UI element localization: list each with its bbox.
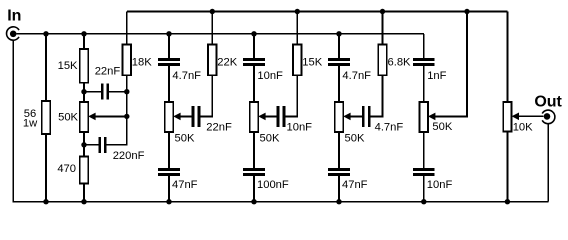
svg-text:15K: 15K	[302, 56, 322, 68]
output connector J2 "Out"	[534, 93, 562, 123]
node ground / band1	[81, 199, 86, 204]
node ground / band4	[336, 199, 341, 204]
wire	[253, 132, 255, 168]
svg-text:50K: 50K	[175, 133, 195, 145]
node ground / 10K pot	[505, 199, 510, 204]
capacitor 10nF band5 shunt	[413, 170, 452, 192]
wire band3 wiper to 15K	[285, 75, 297, 116]
wire band5 wiper to output bus	[435, 12, 467, 117]
svg-text:4.7nF: 4.7nF	[172, 70, 201, 82]
svg-text:47nF: 47nF	[342, 179, 368, 191]
capacitor 22nF band2 wiper	[193, 106, 232, 134]
capacitor 47nF band2 shunt	[158, 170, 197, 192]
node input bus / band4	[336, 31, 341, 36]
wire	[382, 12, 384, 45]
svg-text:1nF: 1nF	[427, 70, 446, 82]
input connector J1 "In"	[7, 8, 22, 41]
wire band3 wiper	[265, 115, 276, 117]
svg-text:10K: 10K	[513, 122, 533, 134]
potentiometer 50K band5	[420, 102, 453, 133]
svg-text:47nF: 47nF	[172, 179, 198, 191]
wire	[296, 12, 298, 45]
wire band1 feedback column	[126, 12, 128, 45]
svg-text:1w: 1w	[23, 118, 38, 130]
resistor 470 band1	[80, 157, 88, 184]
wire	[423, 66, 425, 102]
node input bus / R 56	[43, 31, 48, 36]
node ground / band5	[421, 199, 426, 204]
node band1 pot bottom	[81, 142, 86, 147]
wire band2 wiper	[180, 115, 191, 117]
wire band2 wiper to 22K	[200, 75, 212, 116]
wire	[253, 66, 255, 102]
svg-text:50K: 50K	[260, 133, 280, 145]
node output bus / 22K	[210, 9, 215, 14]
node band1 feedback / wiper	[124, 114, 129, 119]
potentiometer 50K band3	[250, 102, 280, 145]
svg-text:220nF: 220nF	[113, 150, 145, 162]
capacitor 22nF band1 top feedback	[84, 65, 127, 99]
node ground / band2	[166, 199, 171, 204]
svg-text:22nF: 22nF	[206, 122, 232, 134]
wire Out ground drop	[547, 124, 549, 202]
wire	[338, 132, 340, 168]
node output bus / 6.8K	[380, 9, 385, 14]
svg-text:22K: 22K	[217, 56, 237, 68]
wire	[83, 34, 85, 49]
svg-text:15K: 15K	[58, 60, 78, 72]
wire	[45, 34, 47, 101]
wire In ground drop	[12, 40, 14, 201]
wire	[338, 176, 340, 202]
node ground / R 56	[43, 199, 48, 204]
wire	[338, 34, 340, 58]
node input bus / band1	[81, 31, 86, 36]
wire	[45, 134, 47, 202]
svg-text:100nF: 100nF	[257, 179, 289, 191]
potentiometer 50K band4	[335, 102, 365, 145]
resistor 22K band2 feedback	[208, 45, 216, 76]
wire	[211, 12, 213, 45]
wire	[253, 176, 255, 202]
wire	[168, 132, 170, 168]
potentiometer 50K band2	[165, 102, 195, 145]
wire band1 wiper to feedback column	[91, 115, 126, 117]
wire	[253, 34, 255, 58]
svg-text:470: 470	[57, 163, 76, 175]
resistor 18K band1 feedback	[123, 45, 131, 76]
svg-text:10nF: 10nF	[257, 70, 283, 82]
capacitor 220nF band1 bottom feedback	[84, 137, 145, 162]
wire 10K wiper to Out	[519, 115, 543, 117]
resistor 15K band1	[80, 49, 88, 83]
wire	[126, 75, 128, 146]
capacitor 4.7nF band2 series	[158, 60, 201, 82]
svg-text:4.7nF: 4.7nF	[375, 122, 404, 134]
capacitor 4.7nF band4 wiper	[363, 106, 403, 134]
wire	[83, 83, 85, 102]
svg-text:50K: 50K	[58, 112, 78, 124]
resistor 56 1w	[42, 101, 50, 134]
svg-text:4.7nF: 4.7nF	[342, 70, 371, 82]
node band1 feedback / 22nF	[124, 89, 129, 94]
svg-text:50K: 50K	[345, 133, 365, 145]
wire	[506, 132, 508, 202]
potentiometer 50K band1	[80, 102, 88, 132]
svg-text:Out: Out	[534, 93, 562, 110]
svg-text:10nF: 10nF	[427, 179, 453, 191]
capacitor 100nF band3 shunt	[243, 170, 289, 192]
wire	[338, 66, 340, 102]
node input bus / band2	[166, 31, 171, 36]
node ground / band3	[251, 199, 256, 204]
wire	[423, 34, 425, 58]
node band1 pot top	[81, 89, 86, 94]
wire output bus (top rail)	[127, 11, 508, 13]
svg-text:In: In	[7, 8, 21, 25]
capacitor 47nF band4 shunt	[328, 170, 367, 192]
wire band4 wiper to 6.8K	[370, 75, 382, 116]
capacitor 10nF band3 series	[243, 60, 283, 82]
wire	[423, 176, 425, 202]
svg-text:10nF: 10nF	[287, 122, 313, 134]
wire	[423, 132, 425, 168]
wire	[168, 66, 170, 102]
wire output bus drop to level pot	[506, 12, 508, 103]
resistor 15K band3 feedback	[293, 45, 301, 76]
wire band4 wiper	[350, 115, 362, 117]
resistor 6.8K band4 feedback	[378, 45, 386, 76]
wire ground bus	[12, 201, 548, 203]
svg-text:22nF: 22nF	[95, 65, 121, 77]
potentiometer 10K output level	[503, 102, 533, 134]
node output bus / band5 wiper	[464, 9, 469, 14]
capacitor 4.7nF band4 series	[328, 60, 371, 82]
wire input bus (rail from In to last band cap)	[17, 33, 424, 35]
svg-text:18K: 18K	[132, 56, 152, 68]
node output bus / 15K	[295, 9, 300, 14]
svg-text:50K: 50K	[432, 121, 452, 133]
svg-text:6.8K: 6.8K	[388, 56, 412, 68]
wire	[83, 132, 85, 157]
node input bus / band3	[251, 31, 256, 36]
capacitor 1nF band5 series	[413, 60, 447, 82]
wire	[83, 184, 85, 202]
wire	[168, 176, 170, 202]
wire	[168, 34, 170, 58]
capacitor 10nF band3 wiper	[278, 106, 312, 134]
